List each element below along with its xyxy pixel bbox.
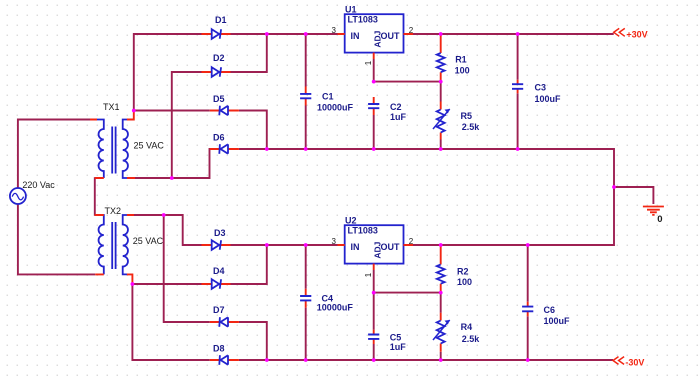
pin number 2 U2 — [409, 237, 414, 246]
label D4 — [213, 266, 225, 276]
pin name ADJ U1 — [372, 30, 382, 47]
wire TX2 bottom node to D8 — [132, 283, 209, 360]
wire R4 to -30V rail — [440, 352, 442, 360]
svg-text:ADJ: ADJ — [372, 241, 382, 258]
svg-text:D8: D8 — [213, 344, 225, 354]
svg-text:2.5k: 2.5k — [462, 334, 481, 344]
svg-text:2: 2 — [409, 26, 414, 35]
label C2 value — [390, 112, 407, 122]
label R2 — [457, 267, 469, 277]
label U1 — [345, 5, 357, 15]
svg-text:OUT: OUT — [381, 31, 401, 41]
wire TX1 bottom node to D6 — [172, 149, 210, 178]
svg-text:1uF: 1uF — [390, 112, 407, 122]
wire R5 to zero rail — [440, 140, 442, 150]
ground symbol node 0 — [643, 207, 664, 215]
svg-text:220 Vac: 220 Vac — [22, 180, 55, 190]
label R1 — [455, 55, 467, 65]
wire C2 bottom to zero rail — [373, 115, 375, 149]
svg-text:1: 1 — [364, 60, 373, 65]
label TX2 — [105, 206, 122, 216]
svg-text:OUT: OUT — [381, 242, 401, 252]
wire +30V rail — [413, 33, 614, 35]
svg-text:D7: D7 — [213, 305, 225, 315]
label R1 value — [455, 65, 470, 75]
svg-text:TX1: TX1 — [103, 102, 120, 112]
svg-text:2: 2 — [409, 237, 414, 246]
svg-text:C1: C1 — [322, 92, 334, 102]
capacitor C2 — [368, 97, 379, 115]
svg-text:1uF: 1uF — [390, 342, 407, 352]
label C3 — [535, 83, 547, 93]
svg-text:U1: U1 — [345, 5, 357, 15]
pin number 1 U1 — [364, 60, 373, 65]
svg-text:D5: D5 — [213, 94, 225, 104]
svg-text:D3: D3 — [214, 228, 226, 238]
diode D8 — [210, 355, 239, 365]
svg-text:D4: D4 — [213, 266, 225, 276]
power port -30V — [613, 357, 644, 368]
label D5 — [213, 94, 225, 104]
label C4 value — [317, 303, 354, 313]
wire ADJ1 line — [374, 81, 441, 83]
svg-text:+30V: +30V — [626, 29, 647, 39]
label R5 — [461, 111, 473, 121]
svg-text:ADJ: ADJ — [372, 30, 382, 47]
wire TX2 secondary bottom to D4 — [132, 283, 201, 285]
wire D1 cathode to U1 pin 3 — [231, 33, 338, 35]
label U1 part LT1083 — [348, 15, 378, 25]
label C4 — [322, 294, 334, 304]
pin name ADJ U2 — [372, 241, 382, 258]
label D2 — [213, 53, 225, 63]
svg-text:IN: IN — [351, 242, 360, 252]
wire D2 cathode up to D1 rail — [231, 34, 267, 72]
diode D3 — [202, 240, 231, 250]
label 25 VAC bottom — [133, 236, 164, 246]
wire D4 cathode up to D3 rail — [231, 245, 267, 284]
svg-text:2.5k: 2.5k — [462, 122, 481, 132]
svg-text:100: 100 — [457, 277, 472, 287]
capacitor C4 — [300, 289, 311, 308]
capacitor C1 — [300, 87, 311, 106]
label TX1 — [103, 102, 120, 112]
diode D4 — [202, 279, 231, 289]
svg-text:U2: U2 — [345, 216, 357, 226]
label D3 — [214, 228, 226, 238]
diode D7 — [210, 317, 239, 327]
svg-text:100uF: 100uF — [544, 316, 571, 326]
pin number 3 U2 — [332, 237, 337, 246]
wire U1 pin 1 to ADJ node — [373, 59, 375, 82]
label C6 — [544, 305, 556, 315]
label 25 VAC top — [134, 141, 165, 151]
label C5 value — [390, 342, 407, 352]
svg-text:10000uF: 10000uF — [317, 102, 354, 112]
label R4 value — [462, 334, 481, 344]
wire C3 column — [517, 34, 519, 149]
svg-text:TX2: TX2 — [105, 206, 122, 216]
resistor R2 — [437, 245, 445, 293]
capacitor C5 — [368, 330, 379, 344]
AC source 220 Vac — [10, 188, 26, 204]
wire TX2 top node to D7 — [164, 215, 210, 322]
pin number 3 U1 — [332, 26, 337, 35]
label C1 — [322, 92, 334, 102]
label C3 value — [535, 94, 562, 104]
wire ADJ2 to R4 — [440, 293, 442, 313]
wire TX1 secondary top to D5 — [134, 110, 210, 112]
pin name IN U1 — [351, 31, 360, 41]
wire C6 column — [527, 245, 529, 360]
label R2 value — [457, 277, 472, 287]
svg-text:D1: D1 — [215, 15, 227, 25]
wire zero rail — [239, 149, 614, 245]
svg-text:C2: C2 — [390, 102, 402, 112]
wire source to TX2 primary bottom — [18, 204, 95, 274]
svg-text:D2: D2 — [213, 53, 225, 63]
svg-text:C3: C3 — [535, 83, 547, 93]
wire U2 output rail — [413, 244, 614, 246]
wire C4 column — [305, 245, 307, 360]
label U2 part LT1083 — [348, 226, 378, 236]
wire D5 anode down to zero rail — [239, 111, 267, 150]
potentiometer R5 — [433, 102, 450, 140]
svg-text:IN: IN — [351, 31, 360, 41]
label 220 Vac — [22, 180, 55, 190]
svg-text:1: 1 — [364, 272, 373, 277]
svg-text:100: 100 — [455, 65, 470, 75]
label D8 — [213, 344, 225, 354]
op-amp regulator U1 LT1083 — [338, 14, 414, 59]
pin name IN U2 — [351, 242, 360, 252]
svg-text:R1: R1 — [455, 55, 467, 65]
pin number 2 U1 — [409, 26, 414, 35]
label R5 value — [462, 122, 481, 132]
svg-text:-30V: -30V — [625, 357, 644, 367]
wire U2 pin 1 to ADJ node — [373, 270, 375, 293]
label C2 — [390, 102, 402, 112]
wire D7 anode down to -30V rail — [239, 322, 267, 360]
label U2 — [345, 216, 357, 226]
wire TX1 secondary bottom node — [135, 72, 202, 178]
svg-text:25 VAC: 25 VAC — [133, 236, 164, 246]
transformer TX2 — [95, 215, 134, 283]
op-amp regulator U2 LT1083 — [338, 225, 414, 270]
pin number 1 U2 — [364, 272, 373, 277]
pin name OUT U2 — [381, 242, 401, 252]
power port +30V — [614, 28, 648, 39]
label D6 — [213, 133, 225, 143]
label C5 — [390, 333, 402, 343]
transformer TX1 — [90, 111, 135, 178]
capacitor C3 — [512, 80, 523, 93]
svg-text:LT1083: LT1083 — [348, 226, 378, 236]
diode D5 — [210, 106, 239, 116]
svg-text:3: 3 — [332, 237, 337, 246]
resistor R1 — [437, 34, 445, 82]
wire ground tap — [614, 187, 653, 204]
svg-text:R2: R2 — [457, 267, 469, 277]
wire TX1 secondary top to D1 — [134, 34, 202, 110]
svg-text:R5: R5 — [461, 111, 473, 121]
label C1 value — [317, 102, 354, 112]
wire C5 bottom to -30V rail — [373, 344, 375, 360]
wire ADJ1 to R5 — [440, 82, 442, 102]
svg-text:3: 3 — [332, 26, 337, 35]
svg-text:100uF: 100uF — [535, 94, 562, 104]
label D7 — [213, 305, 225, 315]
svg-text:D6: D6 — [213, 133, 225, 143]
diode D1 — [202, 29, 231, 39]
wire D3 cathode to U2 pin 3 — [231, 244, 338, 246]
svg-text:LT1083: LT1083 — [348, 15, 378, 25]
svg-text:C5: C5 — [390, 333, 402, 343]
svg-text:0: 0 — [657, 214, 662, 225]
wire C1 column — [305, 34, 307, 149]
potentiometer R4 — [433, 313, 450, 352]
svg-text:C6: C6 — [544, 305, 556, 315]
capacitor C6 — [522, 302, 533, 316]
label D1 — [215, 15, 227, 25]
pin name OUT U1 — [381, 31, 401, 41]
wire -30V rail — [239, 359, 613, 361]
wire TX2 secondary top to D3 — [134, 215, 202, 245]
label C6 value — [544, 316, 571, 326]
svg-text:10000uF: 10000uF — [317, 303, 354, 313]
label R4 — [461, 322, 473, 332]
wire TX1 primary bottom to TX2 primary top — [94, 177, 96, 216]
label ground 0 — [657, 214, 662, 225]
wire source to TX1 primary top — [18, 120, 90, 189]
wire C5 top — [373, 293, 375, 330]
svg-text:R4: R4 — [461, 322, 473, 332]
diode D2 — [202, 67, 231, 77]
svg-text:25 VAC: 25 VAC — [134, 141, 165, 151]
diode D6 — [210, 144, 239, 154]
wire ADJ2 line — [374, 292, 441, 294]
